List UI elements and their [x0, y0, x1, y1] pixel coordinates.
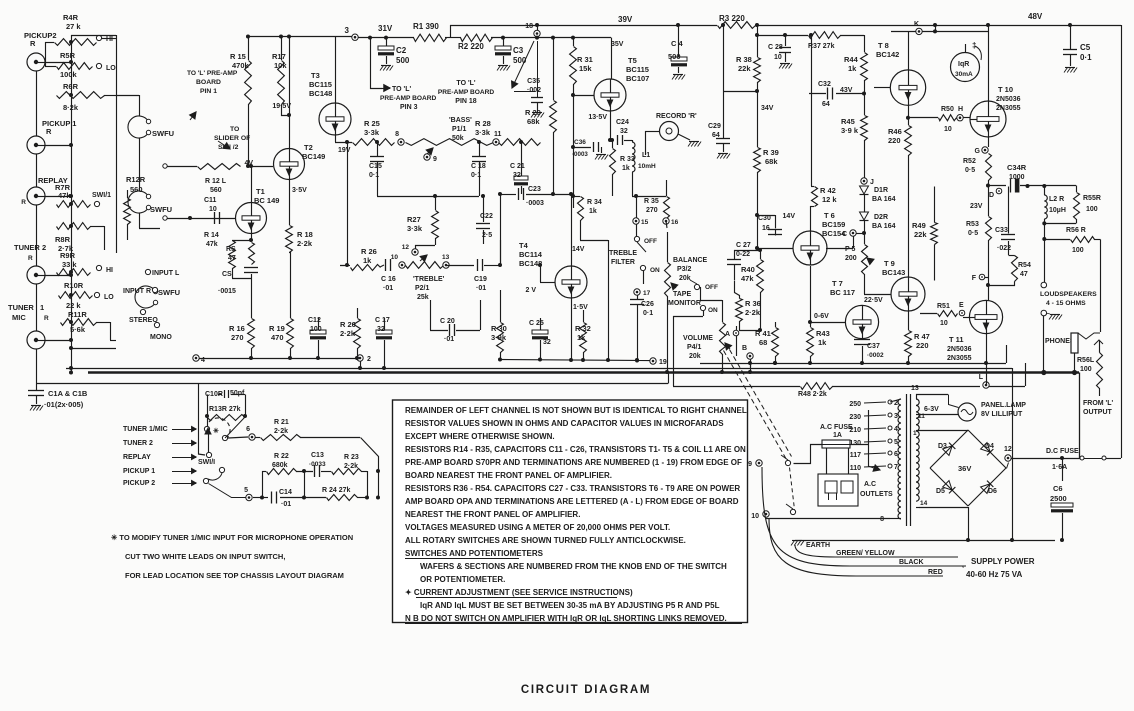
svg-text:100: 100: [310, 326, 322, 333]
svg-text:R 24 27k: R 24 27k: [322, 487, 351, 494]
svg-text:14: 14: [920, 500, 928, 507]
svg-text:D.C FUSE: D.C FUSE: [1046, 448, 1079, 455]
svg-text:R2 220: R2 220: [458, 42, 484, 51]
svg-text:SWI/I: SWI/I: [198, 459, 215, 466]
svg-text:T 7: T 7: [832, 279, 843, 288]
svg-text:RED: RED: [928, 569, 943, 576]
svg-text:R 15: R 15: [230, 52, 246, 61]
svg-text:R 20: R 20: [340, 320, 356, 329]
svg-text:47: 47: [1020, 271, 1028, 278]
svg-text:BC107: BC107: [626, 74, 649, 83]
svg-text:T 10: T 10: [998, 85, 1013, 94]
svg-text:·0003: ·0003: [526, 200, 544, 207]
svg-text:R54: R54: [1018, 262, 1031, 269]
svg-text:D: D: [989, 192, 994, 199]
svg-text:R 19: R 19: [269, 324, 285, 333]
svg-text:R 32: R 32: [575, 324, 591, 333]
svg-text:BC142: BC142: [876, 50, 899, 59]
svg-text:R: R: [46, 127, 52, 136]
svg-text:TUNER 2: TUNER 2: [123, 440, 153, 447]
svg-text:AMP BOARD OPA AND TERMINA: AMP BOARD OPA AND TERMINATIONS ARE LETTE…: [405, 497, 739, 506]
svg-text:R 25: R 25: [364, 119, 380, 128]
svg-text:TO 'L' PRE-AMP: TO 'L' PRE-AMP: [187, 70, 238, 77]
svg-text:R56L: R56L: [1077, 357, 1095, 364]
svg-text:LOUDSPEAKERS: LOUDSPEAKERS: [1040, 291, 1097, 298]
svg-text:100: 100: [1086, 206, 1098, 213]
svg-text:2·2k: 2·2k: [297, 239, 313, 248]
svg-text:R43: R43: [816, 329, 830, 338]
svg-text:P3/2: P3/2: [677, 266, 692, 273]
svg-text:PRE-AMP BOARD: PRE-AMP BOARD: [380, 95, 437, 102]
svg-text:OR POTENTIOMETER.: OR POTENTIOMETER.: [416, 575, 505, 584]
svg-text:110: 110: [850, 465, 861, 472]
svg-text:R 21: R 21: [274, 419, 289, 426]
svg-text:R: R: [28, 255, 33, 262]
svg-text:22k: 22k: [914, 230, 927, 239]
svg-text:C11: C11: [204, 197, 217, 204]
svg-text:1·5V: 1·5V: [573, 304, 588, 311]
svg-text:11: 11: [494, 131, 502, 138]
svg-text:PIN 1: PIN 1: [200, 88, 217, 95]
svg-text:1000: 1000: [1009, 174, 1025, 181]
svg-text:R 41: R 41: [755, 329, 771, 338]
svg-text:IqR: IqR: [958, 61, 969, 68]
svg-text:2·2k: 2·2k: [745, 308, 761, 317]
svg-text:6: 6: [246, 426, 250, 433]
svg-text:C34R: C34R: [1007, 163, 1027, 172]
svg-text:R9R: R9R: [60, 251, 76, 260]
svg-text:23V: 23V: [970, 203, 983, 210]
svg-text:22 k: 22 k: [66, 301, 81, 310]
svg-text:680k: 680k: [272, 462, 288, 469]
svg-text:T2: T2: [304, 143, 313, 152]
svg-text:230: 230: [849, 414, 861, 421]
svg-text:C14: C14: [279, 489, 292, 496]
svg-text:R55R: R55R: [1083, 195, 1101, 202]
svg-text:2·2k: 2·2k: [340, 329, 356, 338]
svg-text:0·1: 0·1: [471, 172, 481, 179]
svg-text:130: 130: [849, 440, 861, 447]
svg-text:R 35: R 35: [644, 198, 659, 205]
svg-text:47k: 47k: [58, 191, 71, 200]
svg-text:VOLTAGES MEASURED USING A: VOLTAGES MEASURED USING A METER OF 20,00…: [405, 523, 670, 532]
svg-text:5: 5: [894, 439, 898, 446]
svg-text:R12R: R12R: [126, 175, 146, 184]
svg-text:1A: 1A: [833, 432, 842, 439]
svg-text:SUPPLY POWER: SUPPLY POWER: [971, 557, 1035, 566]
svg-text:BC115: BC115: [309, 80, 332, 89]
svg-text:P4/1: P4/1: [687, 344, 702, 351]
svg-text:R 16: R 16: [229, 324, 245, 333]
svg-text:LO: LO: [106, 65, 116, 72]
svg-text:R6R: R6R: [63, 82, 79, 91]
svg-text:R 42: R 42: [820, 186, 836, 195]
svg-text:C22: C22: [480, 213, 493, 220]
svg-text:GREEN/ YELLOW: GREEN/ YELLOW: [836, 550, 895, 557]
svg-text:R: R: [21, 199, 26, 206]
svg-text:SWFU: SWFU: [150, 205, 172, 214]
svg-text:FROM 'L': FROM 'L': [1083, 400, 1113, 407]
svg-text:F: F: [972, 275, 977, 282]
svg-text:L: L: [979, 374, 984, 381]
svg-text:100: 100: [1080, 366, 1092, 373]
svg-text:R 39: R 39: [763, 148, 779, 157]
svg-text:✦ CURRENT ADJUSTMENT (SEE: ✦ CURRENT ADJUSTMENT (SEE SERVICE INSTRU…: [405, 588, 633, 597]
svg-text:WAFERS & SECTIONS ARE NUMB: WAFERS & SECTIONS ARE NUMBERED FROM THE …: [416, 562, 727, 571]
svg-text:C6: C6: [1053, 484, 1063, 493]
svg-text:14V: 14V: [572, 246, 585, 253]
svg-text:A.C: A.C: [864, 481, 876, 488]
svg-text:R 34: R 34: [587, 199, 602, 206]
svg-text:2 V: 2 V: [525, 287, 536, 294]
svg-text:C1A & C1B: C1A & C1B: [48, 389, 88, 398]
svg-text:A: A: [725, 331, 730, 338]
svg-text:9: 9: [433, 156, 437, 163]
svg-text:C33: C33: [995, 227, 1008, 234]
svg-text:1·6A: 1·6A: [1052, 464, 1067, 471]
svg-text:SLIDER OF: SLIDER OF: [214, 135, 250, 142]
svg-text:BC154: BC154: [822, 229, 846, 238]
svg-text:68k: 68k: [765, 157, 778, 166]
svg-text:39V: 39V: [618, 15, 633, 24]
svg-text:64: 64: [822, 101, 830, 108]
svg-text:3·3k: 3·3k: [475, 128, 491, 137]
svg-text:R: R: [30, 39, 36, 48]
svg-text:R48 2·2k: R48 2·2k: [798, 391, 827, 398]
svg-text:220: 220: [888, 136, 901, 145]
svg-text:34V: 34V: [761, 105, 774, 112]
svg-text:1k: 1k: [577, 333, 586, 342]
svg-text:REMAINDER OF LEFT CHANNEL: REMAINDER OF LEFT CHANNEL IS NOT SHOWN B…: [405, 406, 747, 415]
svg-text:220: 220: [916, 341, 929, 350]
svg-text:T1: T1: [256, 187, 265, 196]
svg-text:B: B: [742, 345, 747, 352]
svg-text:C3: C3: [513, 46, 524, 55]
svg-text:RESISTORS R36 - R54. CAPACIT: RESISTORS R36 - R54. CAPACITORS C27 - C3…: [405, 484, 740, 493]
svg-text:0·5: 0·5: [968, 230, 978, 237]
svg-text:R 26: R 26: [361, 247, 377, 256]
svg-text:6-3V: 6-3V: [924, 406, 939, 413]
svg-text:270: 270: [231, 333, 244, 342]
svg-text:270: 270: [646, 207, 658, 214]
svg-text:·0002: ·0002: [867, 352, 884, 359]
svg-text:16: 16: [671, 219, 679, 226]
svg-text:R51: R51: [937, 303, 950, 310]
svg-text:500: 500: [396, 56, 410, 65]
svg-text:RESISTORS R14 - R35, CAPACIT: RESISTORS R14 - R35, CAPACITORS C11 - C2…: [405, 445, 746, 454]
svg-text:10: 10: [774, 54, 782, 61]
svg-text:27 k: 27 k: [66, 22, 81, 31]
svg-text:4: 4: [894, 426, 898, 433]
svg-text:5·6k: 5·6k: [70, 325, 86, 334]
svg-text:'BASS': 'BASS': [449, 117, 472, 124]
svg-text:N B DO NOT SWITCH ON AMPL: N B DO NOT SWITCH ON AMPLIFIER WITH IqR …: [405, 614, 727, 623]
svg-text:C5: C5: [1080, 43, 1091, 52]
svg-text:R 31: R 31: [577, 55, 593, 64]
svg-text:PIN 3: PIN 3: [400, 104, 418, 111]
svg-text:R 38: R 38: [736, 55, 752, 64]
svg-text:5: 5: [244, 487, 248, 494]
svg-text:L2 R: L2 R: [1049, 196, 1064, 203]
svg-text:2N5036: 2N5036: [996, 96, 1021, 103]
svg-text:8: 8: [880, 516, 884, 523]
svg-text:T 9: T 9: [884, 259, 895, 268]
svg-text:C2: C2: [396, 46, 407, 55]
svg-text:33 k: 33 k: [62, 260, 77, 269]
svg-text:R11R: R11R: [68, 310, 87, 319]
svg-text:PICKUP 2: PICKUP 2: [123, 480, 155, 487]
svg-text:R40: R40: [741, 265, 755, 274]
svg-text:R17: R17: [272, 52, 286, 61]
svg-text:R44: R44: [844, 55, 859, 64]
svg-text:210: 210: [849, 427, 861, 434]
svg-text:PICKUP 1: PICKUP 1: [123, 468, 155, 475]
svg-text:BOARD NEAREST THE FRONT PA: BOARD NEAREST THE FRONT PANEL OF AMPLIFI…: [405, 471, 612, 480]
svg-text:TREBLE: TREBLE: [609, 250, 637, 257]
svg-text:14V: 14V: [783, 213, 796, 220]
svg-text:10mH: 10mH: [638, 163, 656, 170]
svg-text:R10R: R10R: [64, 281, 84, 290]
svg-text:D6: D6: [988, 488, 997, 495]
svg-text:'TREBLE': 'TREBLE': [413, 276, 445, 283]
svg-text:2·2k: 2·2k: [274, 428, 288, 435]
svg-text:47k: 47k: [741, 274, 754, 283]
svg-text:·0015: ·0015: [218, 288, 236, 295]
svg-text:OFF: OFF: [644, 238, 657, 245]
svg-text:1: 1: [40, 303, 44, 312]
svg-text:1k: 1k: [848, 64, 857, 73]
svg-text:2·2k: 2·2k: [344, 463, 358, 470]
svg-text:BC143: BC143: [882, 268, 905, 277]
svg-text:2N3055: 2N3055: [996, 105, 1021, 112]
svg-text:50pf: 50pf: [230, 390, 245, 397]
svg-text:C32: C32: [818, 81, 831, 88]
svg-text:32: 32: [620, 128, 628, 135]
svg-text:INPUT L: INPUT L: [152, 270, 180, 277]
svg-text:C36: C36: [574, 139, 586, 146]
svg-text:R3 220: R3 220: [719, 14, 745, 23]
svg-text:EARTH: EARTH: [806, 542, 830, 549]
svg-text:T 6: T 6: [824, 211, 835, 220]
svg-text:68: 68: [759, 338, 767, 347]
svg-text:35V: 35V: [611, 41, 624, 48]
svg-text:FOR LEAD LOCATION SEE TO: FOR LEAD LOCATION SEE TOP CHASSIS LAYOUT…: [125, 571, 344, 580]
svg-text:TUNER: TUNER: [8, 303, 34, 312]
svg-text:✳: ✳: [213, 427, 219, 435]
svg-text:19: 19: [659, 359, 667, 366]
svg-text:2N3055: 2N3055: [947, 355, 972, 362]
svg-text:ALL ROTARY SWITCHES ARE SH: ALL ROTARY SWITCHES ARE SHOWN TURNED FUL…: [405, 536, 686, 545]
svg-text:12 k: 12 k: [822, 195, 837, 204]
svg-text:50k: 50k: [452, 135, 464, 142]
svg-text:C 16: C 16: [381, 276, 396, 283]
svg-text:D5: D5: [936, 488, 945, 495]
svg-text:BC 149: BC 149: [254, 196, 279, 205]
svg-text:BOARD: BOARD: [196, 79, 221, 86]
svg-text:10: 10: [751, 513, 759, 520]
svg-text:‡: ‡: [972, 41, 976, 50]
svg-text:17: 17: [643, 290, 651, 297]
svg-text:100: 100: [1072, 247, 1084, 254]
svg-text:R 47: R 47: [914, 332, 930, 341]
svg-text:P2/1: P2/1: [415, 285, 430, 292]
svg-text:BA 164: BA 164: [872, 223, 896, 230]
svg-text:470: 470: [271, 333, 284, 342]
svg-text:D1R: D1R: [874, 187, 888, 194]
svg-text:RECORD 'R': RECORD 'R': [656, 113, 697, 120]
svg-text:SWFU: SWFU: [158, 288, 180, 297]
svg-text:500: 500: [668, 52, 681, 61]
svg-text:R27: R27: [407, 215, 421, 224]
svg-text:T5: T5: [628, 56, 637, 65]
svg-text:SWFU: SWFU: [152, 129, 174, 138]
svg-text:C 27: C 27: [736, 242, 751, 249]
svg-text:R4R: R4R: [63, 13, 79, 22]
svg-text:32: 32: [513, 172, 521, 179]
svg-text:10: 10: [209, 206, 217, 213]
svg-text:R 18: R 18: [297, 230, 313, 239]
svg-text:D3: D3: [938, 443, 947, 450]
svg-text:R 23: R 23: [344, 454, 359, 461]
svg-text:1k: 1k: [818, 338, 827, 347]
svg-text:BC114: BC114: [519, 250, 543, 259]
svg-text:D4: D4: [985, 443, 994, 450]
svg-text:HI: HI: [106, 267, 113, 274]
svg-text:36V: 36V: [958, 464, 971, 473]
svg-text:1k: 1k: [363, 256, 372, 265]
svg-text:T3: T3: [311, 71, 320, 80]
svg-text:ON: ON: [708, 307, 718, 314]
svg-text:8V LILLIPUT: 8V LILLIPUT: [981, 411, 1023, 418]
svg-text:BC115: BC115: [626, 65, 649, 74]
svg-text:CIRCUIT DIAGRAM: CIRCUIT DIAGRAM: [521, 684, 651, 696]
svg-text:4: 4: [201, 357, 205, 364]
svg-text:T 11: T 11: [949, 335, 964, 344]
svg-text:PRE-AMP BOARD: PRE-AMP BOARD: [438, 89, 495, 96]
svg-text:IqR AND IqL MUST BE SET: IqR AND IqL MUST BE SET BETWEEN 30-35 mA…: [416, 601, 720, 610]
svg-text:REPLAY: REPLAY: [123, 454, 151, 461]
svg-text:CS: CS: [222, 271, 232, 278]
svg-text:18: 18: [525, 23, 533, 30]
svg-text:C24: C24: [616, 119, 629, 126]
svg-text:3: 3: [894, 413, 898, 420]
svg-text:VOLUME: VOLUME: [683, 335, 713, 342]
svg-text:4 - 15 OHMS: 4 - 15 OHMS: [1046, 300, 1086, 307]
svg-text:C 20: C 20: [440, 318, 455, 325]
svg-text:15: 15: [641, 219, 649, 226]
svg-text:R52: R52: [963, 158, 976, 165]
svg-text:6: 6: [894, 451, 898, 458]
svg-text:R 12 L: R 12 L: [205, 178, 227, 185]
svg-text:BA 164: BA 164: [872, 196, 896, 203]
svg-text:560: 560: [210, 187, 222, 194]
svg-text:2: 2: [42, 243, 46, 252]
svg-text:·01: ·01: [444, 336, 454, 343]
svg-text:22k: 22k: [738, 64, 751, 73]
svg-text:BC148: BC148: [309, 89, 332, 98]
svg-text:SWI/1: SWI/1: [92, 192, 111, 199]
svg-text:R56 R: R56 R: [1066, 227, 1086, 234]
svg-text:20k: 20k: [689, 353, 701, 360]
svg-text:C37: C37: [867, 343, 880, 350]
svg-text:3·3k: 3·3k: [407, 224, 423, 233]
svg-text:MONITOR: MONITOR: [668, 300, 701, 307]
svg-text:RESISTOR VALUES SHOWN IN O: RESISTOR VALUES SHOWN IN OHMS AND CAPACI…: [405, 419, 724, 428]
svg-text:FILTER: FILTER: [611, 259, 635, 266]
svg-text:J: J: [870, 179, 874, 186]
svg-text:TO 'L': TO 'L': [456, 80, 475, 87]
svg-text:T 8: T 8: [878, 41, 889, 50]
svg-text:10: 10: [391, 254, 399, 261]
svg-text:0·1: 0·1: [1080, 53, 1092, 62]
svg-text:470k: 470k: [232, 61, 250, 70]
svg-text:C35: C35: [527, 78, 540, 85]
svg-text:10: 10: [940, 320, 948, 327]
svg-text:BLACK: BLACK: [899, 559, 924, 566]
svg-text:BC 117: BC 117: [830, 288, 855, 297]
svg-text:TUNER 1/MIC: TUNER 1/MIC: [123, 426, 168, 433]
svg-text:3·3k: 3·3k: [364, 128, 380, 137]
svg-text:C12: C12: [308, 317, 321, 324]
svg-text:R 22: R 22: [274, 453, 289, 460]
svg-text:✳ TO MODIFY TUNER 1/MIC IN: ✳ TO MODIFY TUNER 1/MIC INPUT FOR MICROP…: [111, 533, 353, 542]
svg-text:OUTPUT: OUTPUT: [1083, 409, 1113, 416]
svg-text:0-22: 0-22: [736, 251, 750, 258]
svg-text:R1 390: R1 390: [413, 22, 439, 31]
svg-text:30mA: 30mA: [955, 71, 973, 78]
svg-text:8·2k: 8·2k: [63, 103, 79, 112]
svg-text:3·5V: 3·5V: [292, 187, 307, 194]
svg-text:CUT TWO WHITE LEADS ON IN: CUT TWO WHITE LEADS ON INPUT SWITCH,: [125, 552, 285, 561]
svg-text:R8R: R8R: [55, 235, 71, 244]
svg-text:NEAREST THE FRONT PANEL OF: NEAREST THE FRONT PANEL OF AMPLIFIER.: [405, 510, 580, 519]
svg-text:R45: R45: [841, 117, 855, 126]
svg-text:R: R: [44, 315, 49, 322]
svg-text:40-60 Hz 75 VA: 40-60 Hz 75 VA: [966, 570, 1023, 579]
svg-text:K: K: [914, 21, 919, 28]
svg-text:13: 13: [442, 254, 450, 261]
svg-text:P1/1: P1/1: [452, 126, 467, 133]
svg-text:1k: 1k: [622, 165, 630, 172]
svg-text:C 21: C 21: [510, 163, 525, 170]
svg-text:48V: 48V: [1028, 12, 1043, 21]
svg-text:BC159: BC159: [822, 220, 845, 229]
svg-text:C13: C13: [311, 452, 324, 459]
svg-text:SWITCHES AND POTENTIOMETERS: SWITCHES AND POTENTIOMETERS: [405, 549, 544, 558]
svg-text:ON: ON: [650, 267, 660, 274]
svg-text:200: 200: [845, 255, 857, 262]
svg-text:R 29: R 29: [525, 108, 541, 117]
svg-text:C 17: C 17: [375, 317, 390, 324]
svg-text:22·5V: 22·5V: [864, 297, 883, 304]
svg-text:·01: ·01: [476, 285, 486, 292]
svg-text:R46: R46: [888, 127, 902, 136]
svg-text:0·1: 0·1: [643, 310, 653, 317]
svg-text:BC149: BC149: [302, 152, 325, 161]
svg-text:32: 32: [543, 339, 551, 346]
svg-text:2500: 2500: [1050, 494, 1067, 503]
svg-text:R13R 27k: R13R 27k: [209, 406, 241, 413]
svg-text:7: 7: [894, 464, 898, 471]
svg-text:·01: ·01: [281, 501, 291, 508]
svg-text:2: 2: [367, 356, 371, 363]
svg-text:68k: 68k: [527, 117, 540, 126]
svg-text:3: 3: [345, 26, 350, 35]
svg-text:RS: RS: [226, 246, 236, 253]
svg-text:560: 560: [130, 185, 143, 194]
svg-text:C 18: C 18: [471, 163, 486, 170]
svg-text:8: 8: [395, 131, 399, 138]
